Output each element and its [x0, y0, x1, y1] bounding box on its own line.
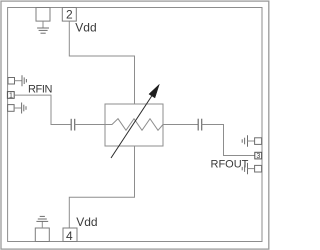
svg-text:RFOUT: RFOUT [211, 158, 249, 170]
ground [37, 28, 49, 33]
pad box C6 [255, 138, 262, 145]
ground [22, 75, 26, 86]
svg-text:RFIN: RFIN [28, 84, 53, 96]
port 2 (Vdd pin) [62, 8, 76, 22]
port 1 (RFIN pin) [7, 92, 14, 99]
capacitor C8 (bottom-left bypass box) [35, 228, 49, 242]
capacitor C2 (left upper shunt) [8, 78, 15, 85]
ground (inverted) [36, 216, 48, 221]
capacitor C3 (input DC block) [71, 119, 75, 131]
ground [22, 103, 26, 114]
resistor element inside U1 [105, 119, 163, 131]
svg-text:3: 3 [256, 153, 260, 160]
capacitor C7 (right lower shunt) [242, 163, 247, 174]
svg-text:Vdd: Vdd [76, 215, 97, 229]
adjustment arrow [111, 84, 159, 158]
capacitor C5 (output DC block) [198, 119, 202, 131]
svg-text:Vdd: Vdd [75, 21, 96, 35]
svg-text:2: 2 [66, 8, 73, 22]
port 4 (Vdd pin) [63, 228, 77, 242]
schematic frame / package outline [8, 8, 262, 242]
svg-text:4: 4 [66, 229, 73, 243]
wire from pin 2 to attenuator top [69, 21, 134, 104]
wire [248, 140, 255, 142]
wire [42, 21, 44, 28]
port 3 (RFOUT pin) [255, 152, 262, 159]
wire from U1 to output DC block [163, 124, 198, 126]
wire to port 3 [202, 125, 255, 156]
wire [248, 168, 255, 170]
attenuator U1 (variable resistor box) [105, 104, 163, 146]
capacitor C1 (top-left bypass box) [36, 8, 50, 22]
wire from U1 bottom to pin 4 [69, 146, 134, 228]
wire [41, 221, 43, 228]
capacitor C4 (left lower shunt) [8, 105, 15, 112]
wire [14, 107, 21, 109]
pad box C7 [255, 165, 262, 172]
svg-text:1: 1 [9, 93, 13, 100]
capacitor C6 (right upper shunt) [242, 135, 247, 146]
wire [75, 124, 105, 126]
wire from pin 1 to C3 [14, 95, 71, 124]
wire [15, 80, 22, 82]
